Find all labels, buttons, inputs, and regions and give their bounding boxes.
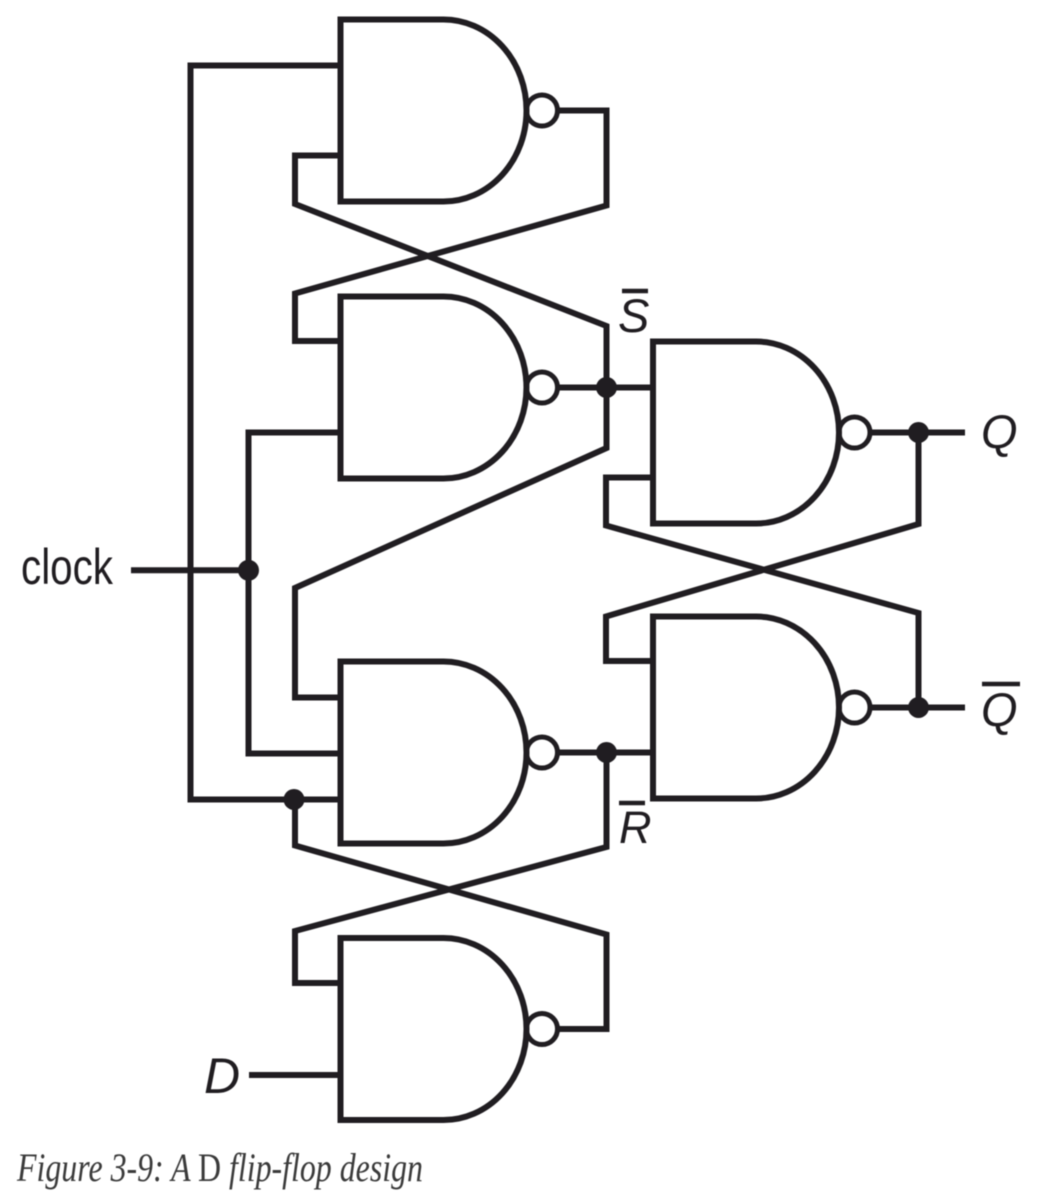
svg-text:R: R	[619, 802, 652, 853]
NAND gate G1 (top left) body	[341, 20, 527, 202]
svg-text:clock: clock	[21, 539, 114, 595]
svg-text:D: D	[204, 1048, 240, 1104]
wire: G4 output up to node at G3 input 3	[295, 800, 607, 1030]
svg-text:S: S	[618, 289, 649, 342]
wire: G3 output to R-bar node and G6 input 2	[556, 750, 653, 756]
NAND gate G5 (Q output gate) body	[653, 342, 839, 524]
node: clock junction	[238, 560, 259, 581]
wire: clock input horizontal	[131, 567, 249, 573]
wire: Q-bar feedback up to G5 input 2	[606, 478, 919, 708]
wire: S-bar node down to G3 input 1	[295, 388, 607, 698]
NAND gate G5 output bubble	[839, 417, 870, 448]
svg-text:Q: Q	[981, 405, 1018, 458]
NAND gate G6 (Q-bar output gate) body	[653, 617, 839, 799]
S-bar overbar	[622, 289, 648, 294]
NAND gate G4 output bubble	[527, 1014, 558, 1045]
node: S-bar junction	[596, 377, 617, 398]
NAND gate G4 (D input gate) body	[341, 938, 527, 1120]
node: Q junction	[908, 422, 929, 443]
wire: G6 output to Q-bar terminal	[869, 705, 966, 711]
R-bar overbar	[619, 801, 645, 806]
wire: Q feedback down to G6 input 1	[606, 433, 919, 662]
NAND gate G6 output bubble	[839, 692, 870, 723]
node: G3 input 3 junction	[284, 789, 305, 810]
svg-text:Figure 3-9: A D flip-flop desi: Figure 3-9: A D flip-flop design	[16, 1145, 423, 1190]
wire: R-bar node down to G4 input 1	[295, 753, 607, 984]
NAND gate G1 output bubble	[527, 95, 558, 126]
NAND gate G2 output bubble	[527, 372, 558, 403]
svg-text:Q: Q	[981, 683, 1018, 736]
wire: G2 output to S-bar node and G5 input 1	[556, 385, 653, 391]
wire: G1 output down to G2 input 1	[295, 111, 607, 342]
NAND gate G3 output bubble	[527, 737, 558, 768]
NAND gate G3 (R-bar gate, 3-input) body	[341, 662, 527, 844]
NAND gate G2 (S-bar gate) body	[341, 297, 527, 479]
node: Q-bar junction	[908, 697, 929, 718]
Q-bar overbar	[982, 682, 1020, 687]
wire: G4 output net up left side to G1 input 1 and G3 input 3	[191, 66, 341, 800]
wire: G1 input 2 stub from S-bar net	[295, 156, 607, 388]
node: R-bar junction	[596, 742, 617, 763]
wire: D input horizontal	[249, 1072, 341, 1078]
wire: clock vertical to G2 input 2 and G3 input 2	[249, 433, 341, 754]
wire: G5 output to Q terminal	[869, 430, 966, 436]
